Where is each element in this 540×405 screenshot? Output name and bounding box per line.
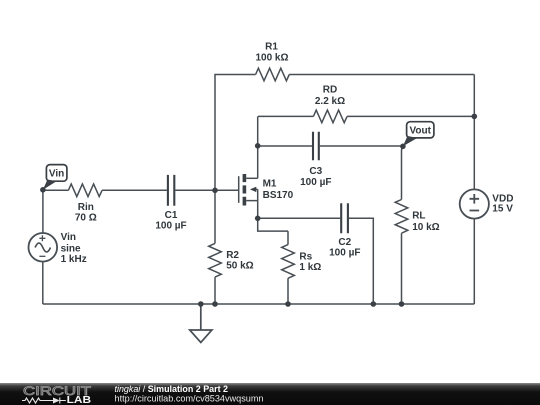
node: Vin flag anchor xyxy=(40,187,46,193)
svg-text:Rs: Rs xyxy=(299,251,312,262)
voltage source VDD circle xyxy=(460,189,489,218)
svg-text:R1: R1 xyxy=(265,42,278,53)
node: source junction xyxy=(255,216,261,222)
wire: RL branch xyxy=(402,147,403,200)
flag Vout xyxy=(403,122,434,147)
svg-text:70 Ω: 70 Ω xyxy=(75,213,97,224)
transistor M1 channel bars xyxy=(243,174,247,206)
resistor Rs xyxy=(282,231,295,304)
node: R2 on rail xyxy=(212,301,218,307)
wire: C3 row from drain vertical to Vout node xyxy=(258,145,403,147)
wire: Vin source branch xyxy=(42,190,44,304)
node: C2 on rail xyxy=(371,301,377,307)
footer bar xyxy=(0,383,540,405)
wire: jog from source node to Rs xyxy=(258,218,288,231)
voltage source V1 (Vin) circle xyxy=(29,233,58,262)
svg-text:1 kΩ: 1 kΩ xyxy=(299,262,321,273)
svg-text:2.2 kΩ: 2.2 kΩ xyxy=(315,96,345,107)
svg-text:1 kHz: 1 kHz xyxy=(61,254,87,265)
svg-text:100 µF: 100 µF xyxy=(329,248,360,259)
svg-text:tingkai / Simulation 2 Part 2: tingkai / Simulation 2 Part 2 xyxy=(115,384,229,394)
logo squiggle resistor-diode xyxy=(22,398,66,404)
transistor M1 arrow head xyxy=(250,187,256,192)
transistor M1 arrow line xyxy=(255,188,258,190)
capacitor C2 xyxy=(341,203,348,233)
node: RD/VDD junction xyxy=(472,114,478,120)
transistor M1 drain lead xyxy=(246,177,258,179)
svg-text:100 kΩ: 100 kΩ xyxy=(255,53,288,64)
resistor RD xyxy=(313,110,347,123)
svg-text:Vin: Vin xyxy=(61,232,76,243)
node: gate/R1/R2 junction xyxy=(212,188,218,194)
svg-text:sine: sine xyxy=(61,244,81,255)
svg-text:100 µF: 100 µF xyxy=(300,177,331,188)
svg-text:R2: R2 xyxy=(226,250,239,261)
transistor M1 BS170 : gate bar xyxy=(238,176,240,203)
capacitor C3 xyxy=(313,132,319,160)
wire: bottom rail xyxy=(43,303,475,305)
voltage source VDD plus xyxy=(470,194,480,204)
resistor R2 xyxy=(209,190,222,304)
svg-text:100 µF: 100 µF xyxy=(155,221,186,232)
voltage source V1 minus xyxy=(39,255,45,257)
svg-text:LAB: LAB xyxy=(67,395,92,405)
resistor RL xyxy=(395,200,408,305)
resistor Rin xyxy=(68,184,102,197)
svg-text:http://circuitlab.com/cv8534vw: http://circuitlab.com/cv8534vwqsumn xyxy=(115,394,264,404)
svg-text:15 V: 15 V xyxy=(492,204,513,215)
svg-text:RL: RL xyxy=(412,210,425,221)
node: Rs on rail xyxy=(285,301,291,307)
wire: source row to C2 and down to rail xyxy=(258,218,374,304)
svg-text:Rin: Rin xyxy=(78,202,94,213)
voltage source V1 plus xyxy=(39,235,45,241)
svg-text:C1: C1 xyxy=(165,210,178,221)
flag Vin xyxy=(43,165,67,190)
ground symbol xyxy=(190,304,212,343)
svg-text:M1: M1 xyxy=(263,179,277,190)
node: drain/C3 junction xyxy=(255,143,261,149)
node: RL on rail xyxy=(399,301,405,307)
voltage source VDD minus xyxy=(470,210,480,212)
wire: R1 left vertical and top row xyxy=(215,75,474,191)
voltage source V1 sine xyxy=(35,243,50,252)
transistor M1 source lead and body vertical xyxy=(246,189,258,218)
svg-text:10 kΩ: 10 kΩ xyxy=(412,222,439,233)
wire: VDD rail verticals xyxy=(473,75,475,305)
svg-text:RD: RD xyxy=(323,85,337,96)
node: ground on rail xyxy=(198,301,204,307)
capacitor C1 xyxy=(168,175,174,206)
svg-text:C3: C3 xyxy=(309,166,322,177)
svg-text:Vout: Vout xyxy=(409,125,431,136)
svg-text:50 kΩ: 50 kΩ xyxy=(226,261,253,272)
svg-text:BS170: BS170 xyxy=(263,190,294,201)
wire: gate row from Vin node to MOSFET gate xyxy=(43,189,238,191)
wire: RD row from drain to VDD rail xyxy=(258,115,474,117)
svg-text:C2: C2 xyxy=(338,237,351,248)
node: Vout anchor xyxy=(400,144,406,150)
wire: drain vertical xyxy=(257,116,259,178)
svg-text:Vin: Vin xyxy=(49,168,64,179)
resistor R1 xyxy=(256,68,290,81)
